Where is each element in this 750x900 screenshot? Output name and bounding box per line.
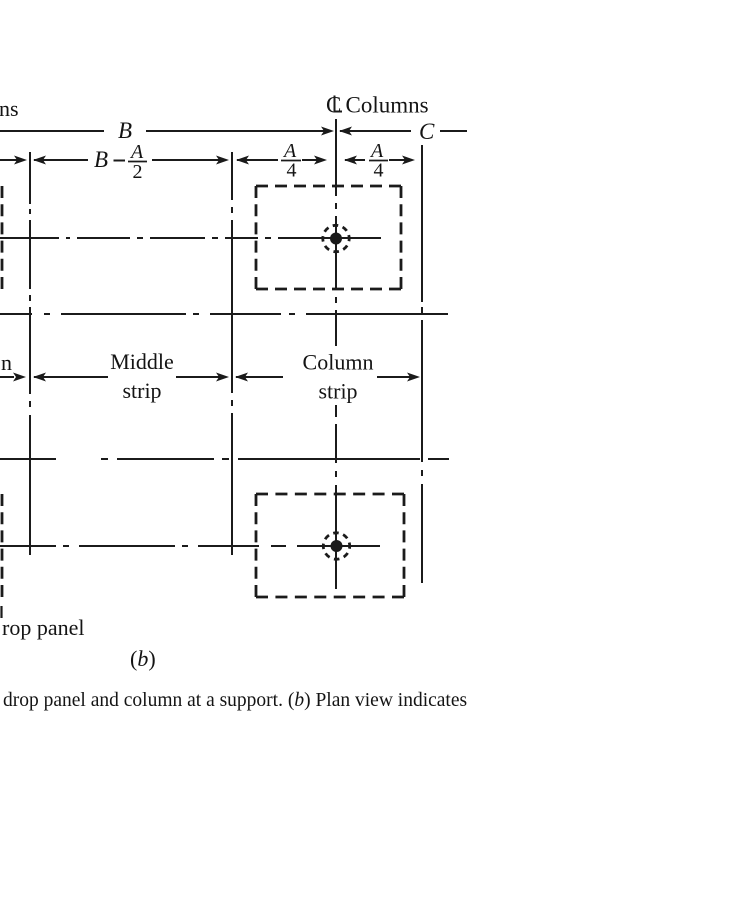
dimension line C (rightmost dash): [440, 130, 467, 132]
cut-off left strip arrow: [0, 376, 14, 378]
column symbol C2: solid dot: [331, 540, 343, 552]
vertical column centerline V3 x=336: [335, 119, 337, 589]
svg-text:Middle: Middle: [110, 349, 174, 374]
drop panel DP2 dashed rectangle: [256, 493, 404, 496]
svg-text:ns: ns: [0, 96, 19, 121]
dimension line A/4 (first) left arrowhead: [236, 156, 249, 165]
middle strip right arrow: [176, 376, 221, 378]
svg-text:C: C: [419, 119, 435, 144]
horizontal strip boundary line y=314: [0, 313, 448, 315]
svg-text:B: B: [118, 118, 132, 143]
cut-off left drop panel edge row 1: [1, 186, 4, 289]
column symbol C1: solid dot: [330, 233, 342, 245]
svg-text:strip: strip: [318, 379, 357, 404]
minus sign: [114, 160, 126, 162]
horizontal strip boundary line y=459: [0, 458, 449, 460]
vertical strip boundary line V1 x=30: [29, 152, 31, 555]
svg-text:4: 4: [374, 160, 384, 182]
svg-text:A: A: [129, 141, 144, 163]
middle strip left arrow: [33, 373, 46, 382]
svg-text:4: 4: [287, 160, 297, 182]
column strip left arrow: [235, 373, 248, 382]
svg-text:Columns: Columns: [346, 93, 429, 118]
leader line to Drop panel label: [0, 606, 2, 618]
dimension line A/4 (second) left arrowhead: [344, 156, 357, 165]
dimension line A/4 second right segment arrowhead: [389, 159, 407, 161]
horizontal row-1 centerline y=238: [0, 237, 381, 239]
svg-text:(b): (b): [130, 646, 156, 671]
dimension line B - A/2 right segment with arrowhead: [152, 159, 220, 161]
vertical strip boundary line V2 x=232: [231, 152, 233, 555]
svg-text:strip: strip: [122, 378, 161, 403]
svg-text:2: 2: [133, 161, 143, 183]
horizontal row-2 centerline y=546: [0, 545, 380, 547]
vertical panel edge line V4 x=422: [421, 145, 423, 583]
column symbol C1: dashed circle: [323, 225, 349, 251]
svg-text:rop panel: rop panel: [2, 615, 84, 640]
dimension line C (arrowhead + segment): [339, 127, 352, 136]
dimension line B (left segment): [0, 130, 104, 132]
dimension line B - A/2 left arrowhead: [33, 156, 46, 165]
cut-off left drop panel edge row 2: [1, 494, 4, 597]
dimension line B (right segment with arrowhead): [146, 130, 330, 132]
dimension line 2: left stub with arrowhead: [0, 159, 17, 161]
column strip right arrow: [377, 376, 412, 378]
dimension line A/4 first right segment arrowhead: [302, 159, 319, 161]
svg-text:B: B: [94, 147, 108, 172]
svg-text:Column: Column: [303, 350, 374, 375]
drop panel DP1 dashed rectangle: [256, 185, 401, 188]
svg-text:n: n: [1, 350, 12, 375]
column symbol C2: dashed circle: [323, 533, 349, 559]
svg-text:drop panel and column at a sup: drop panel and column at a support. (b) …: [3, 690, 467, 711]
